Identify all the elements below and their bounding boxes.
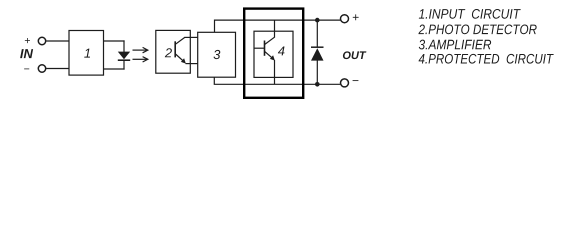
junction node bottom rail [315,82,320,87]
node OUT- terminal [341,79,349,87]
protection diode D2 cathode bar [311,46,324,48]
label OUT [343,51,366,59]
box 3 amplifier [198,32,236,77]
transistor Q4 emitter with arrow [265,52,274,60]
box 1 input circuit [69,31,104,76]
light arrow upper [133,47,148,52]
label 1 [84,49,90,58]
wire box1 to LED cathode [104,68,125,70]
box 4 inner rectangle [254,31,293,77]
LED D1 cathode bar [118,59,130,61]
wire bottom rail box3 to OUT- [214,77,340,84]
protection diode D2 cathode lead [316,20,318,47]
transistor Q4 collector [265,37,275,44]
legend line 2 [418,24,536,34]
LED D1 anode lead [123,40,125,52]
phototransistor Q2 base bar [174,41,176,57]
wire Q4 collector to top rail [274,20,276,37]
node IN- terminal [38,65,45,72]
transistor Q4 base bar [264,41,266,56]
label IN [20,49,33,58]
legend line 1 [419,9,521,19]
protection diode D2 triangle [311,48,324,60]
phototransistor Q2 collector [176,37,185,44]
node OUT+ terminal [341,15,349,23]
wire box1 to LED anode [104,40,125,42]
protected circuit outer thick box [244,9,303,98]
light arrow lower [133,57,148,62]
label - (output minus) [353,79,359,82]
wire Q2 collector to box3 [184,36,197,38]
wire IN+ to box1 [46,40,69,42]
label 3 [213,50,220,59]
phototransistor Q2 emitter with arrow [176,54,185,62]
legend line 3 [419,40,491,50]
junction node top rail [315,18,320,23]
LED D1 triangle [118,52,130,60]
label 2 [165,48,172,57]
transistor Q4 base wire [254,47,265,49]
label 4 [278,46,285,55]
protection diode D2 anode lead [316,60,318,84]
wire Q4 emitter to bottom rail [274,60,276,84]
legend line 4 [419,54,554,64]
wire Q2 emitter to box3 [186,63,198,65]
wire top rail box3 to OUT+ [215,20,341,32]
LED D1 cathode lead [123,60,125,69]
wire IN- to box1 [46,68,69,70]
label + (output plus) [353,14,359,20]
box 2 photo detector [156,30,191,73]
label + (input plus) [25,38,30,43]
label - (input minus) [24,68,29,71]
node IN+ terminal [38,37,45,44]
